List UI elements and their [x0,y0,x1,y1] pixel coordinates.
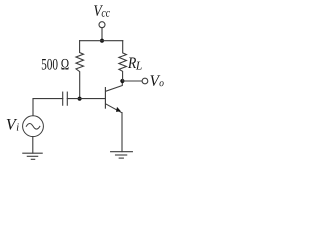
junction dot collector node [120,79,124,83]
resistor R1 500 ohm with leads [76,41,84,99]
label 500 ohm [42,59,69,70]
ground under source bar1 [23,152,42,154]
wire Vcc stem [101,28,103,41]
wire top rail [80,40,123,42]
junction dot base node [78,97,82,101]
ground at emitter bar3 [119,157,123,159]
label Vo [150,75,163,86]
label Vcc [94,5,110,16]
terminal Vcc (open circle) [99,22,105,28]
terminal Vo (open circle) [142,78,148,84]
wire source to ground [32,137,34,154]
ground at emitter bar2 [116,154,127,156]
resistor RL with leads [119,41,127,81]
transistor Q1 collector lead [106,81,123,91]
capacitor C1 plate right [66,92,68,105]
label RL [128,58,142,70]
transistor Q1 emitter lead [106,104,122,113]
ground at emitter bar1 [111,151,133,153]
wire capacitor to base [67,98,105,100]
source Vi sine wave [26,123,40,129]
transistor Q1 emitter arrow [116,107,121,112]
junction dot on top rail [100,39,104,43]
source Vi (sine source circle) [23,116,44,137]
wire source to capacitor [33,99,63,116]
ground under source bar2 [27,155,37,157]
transistor Q1 base bar [104,88,106,109]
wire emitter to ground [121,113,123,152]
wire output [122,80,141,82]
capacitor C1 plate left [62,92,64,105]
label Vi [7,119,19,131]
ground under source bar3 [31,158,34,160]
